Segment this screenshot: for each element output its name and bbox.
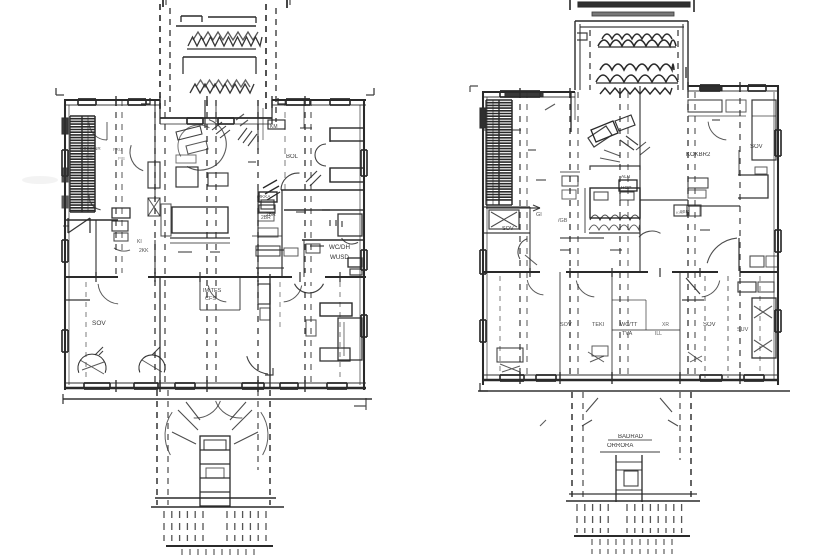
window top-right B	[330, 98, 350, 100]
r-kitchen wall	[639, 86, 641, 272]
window bottom D	[242, 382, 264, 384]
p1 scatter marks	[178, 114, 330, 252]
p1 wall stub x258 top	[257, 100, 259, 150]
r-outer wall left	[482, 92, 484, 385]
p1 door N mark bottom-left	[68, 218, 90, 233]
window bottom E	[280, 382, 298, 384]
outer wall top recessed (behind terrace)	[160, 117, 272, 119]
wall join right of terrace	[271, 100, 273, 124]
r-axis x578	[577, 92, 579, 380]
r-axis x527	[526, 92, 528, 380]
r-window bottom C	[700, 374, 722, 376]
sofa table big	[176, 167, 198, 187]
r-window bottom A	[500, 374, 524, 376]
window right wall C	[360, 315, 362, 337]
r-ground line	[478, 390, 790, 392]
bottom-right small table	[306, 320, 316, 336]
r-window bottom D	[744, 374, 764, 376]
window left wall C	[61, 330, 63, 352]
svg-text:KOKSINR: KOKSINR	[80, 146, 101, 151]
axis line x258	[257, 100, 259, 388]
top-right room sofa	[330, 128, 364, 141]
p2 wardrobe boxes	[750, 256, 764, 267]
r-left small tick	[540, 420, 546, 426]
r-toilet walls	[483, 206, 530, 208]
kitchen door arc	[89, 123, 107, 140]
lower stair dashed outline	[156, 390, 158, 505]
r-stair landing	[486, 204, 512, 206]
KM appliance box	[268, 120, 285, 129]
outer wall top-right segment	[272, 99, 366, 101]
window top-right A	[286, 98, 310, 100]
p2 appliance row	[674, 205, 687, 216]
bottom mid door arcs	[208, 286, 226, 302]
outer wall top-left segment	[64, 99, 160, 101]
r-bottom rooms wall 3	[679, 272, 681, 380]
p1 top-left corner bracket	[56, 88, 64, 95]
r-bottom rooms wall 4	[612, 329, 680, 331]
r-scallop row 3	[600, 88, 672, 94]
axis line x122	[121, 100, 123, 278]
r-window top-left	[500, 90, 540, 92]
window bottom A	[84, 382, 110, 384]
r-terrace window bracket	[577, 33, 587, 40]
kitchen counter	[112, 208, 130, 218]
wc fixtures	[306, 244, 320, 253]
top edge tick 1	[162, 0, 164, 7]
svg-text:2KK: 2KK	[139, 248, 149, 254]
r-axis x520	[519, 92, 521, 380]
r-axis x620	[619, 92, 621, 380]
svg-text:TVA: TVA	[622, 331, 633, 337]
fan arcs right	[230, 402, 258, 444]
armchair hatch right	[238, 128, 257, 146]
window recessed B	[218, 117, 234, 119]
p2 bottom band dashes extra	[499, 276, 501, 372]
mid-right room bed	[338, 214, 362, 236]
svg-text:HOP: HOP	[621, 185, 631, 191]
r-bottom-right bed	[752, 298, 776, 358]
round chair B	[139, 355, 165, 372]
r-bed pillows	[594, 192, 608, 200]
r-lower dashed outline	[571, 392, 573, 500]
window bottom B	[134, 382, 158, 384]
r-window bottom B	[536, 374, 556, 376]
r-lower landing lines	[600, 451, 660, 453]
r-window right A	[774, 130, 776, 156]
p2 top window dark	[700, 86, 722, 91]
svg-text:BADRAD: BADRAD	[618, 434, 644, 440]
axis line x216	[215, 100, 217, 388]
svg-text:TEKI: TEKI	[592, 322, 605, 328]
r-bottomright wall stub	[682, 299, 704, 301]
r-stair arrow	[486, 207, 540, 209]
r-door arc top right	[708, 122, 726, 140]
r-bottom-left chair2	[588, 352, 604, 362]
shrub row 1	[188, 37, 262, 46]
outer wall left	[64, 100, 66, 390]
r-fridge	[445, 119, 447, 121]
terrace corner bracket right	[278, 98, 287, 104]
dining hatch marks	[212, 122, 230, 138]
terrace rail lower line	[176, 25, 256, 27]
window right wall A	[360, 150, 362, 176]
deck edge line	[155, 497, 276, 499]
outer wall bottom	[64, 387, 366, 389]
svg-text:XR: XR	[662, 322, 669, 328]
svg-text:ILL: ILL	[655, 331, 662, 337]
staircase band	[70, 116, 95, 211]
svg-text:/GB: /GB	[558, 218, 568, 224]
r-wcsmall fixtures	[489, 210, 519, 229]
top-right door arc	[281, 173, 300, 190]
svg-text:PIB: PIB	[86, 154, 93, 159]
axis line x311	[310, 100, 312, 388]
r-bottom rooms wall 1	[559, 272, 561, 380]
r-corridor wall	[483, 271, 779, 273]
mid bottom fixtures	[258, 284, 270, 304]
wall right mid room	[302, 239, 364, 241]
svg-text:BOL: BOL	[286, 154, 299, 160]
p1 wall ticks top	[116, 96, 305, 108]
bottom-left door arc	[98, 284, 118, 304]
r-axis x688	[687, 92, 689, 380]
bottom right door arc	[295, 284, 324, 293]
r-terrace rail lines	[575, 20, 688, 22]
kitchen wall below stairs	[64, 219, 118, 221]
r-fan marks	[582, 398, 678, 426]
r-deck edge	[569, 493, 697, 495]
p1 corridor ticks	[96, 272, 340, 282]
kitchen island	[176, 155, 196, 163]
vert wall right rooms	[281, 190, 283, 277]
r-terrace gray band	[592, 12, 674, 16]
chair arrows	[95, 347, 103, 355]
svg-text:SOV: SOV	[560, 322, 572, 328]
living room left wall	[154, 100, 156, 200]
r-axis x628	[627, 92, 629, 380]
r-window right C	[774, 310, 776, 332]
deck plank rows	[164, 511, 203, 541]
r-wc cell walls	[612, 299, 646, 301]
r-kitchen counters mid	[688, 178, 708, 188]
r-right bed top	[752, 100, 776, 160]
lower stair ladder	[200, 436, 230, 506]
p1 top-right corner bracket	[366, 88, 374, 95]
svg-text:SOV: SOV	[92, 320, 106, 327]
p2 wall ticks top	[520, 82, 740, 98]
axis line x116	[115, 100, 117, 278]
stair bottom landing	[70, 211, 95, 213]
dining chairs group	[176, 126, 202, 140]
p1 bottom band dashes extra	[85, 282, 87, 380]
r-outer wall bottom	[482, 379, 779, 381]
r-entry partition wall	[570, 92, 572, 132]
r-bottomright wardrobes	[738, 282, 756, 292]
svg-text:WC/DH: WC/DH	[329, 244, 350, 251]
r-window top-right B	[748, 84, 766, 86]
r-window left A	[479, 250, 481, 274]
r-staircase band	[486, 100, 512, 200]
r-axis x570	[569, 92, 571, 380]
wall right of living	[257, 190, 259, 277]
window bottom C	[175, 382, 195, 384]
svg-text:KOKBR2: KOKBR2	[686, 152, 711, 158]
r-scallop row 2	[600, 64, 674, 70]
svg-text:ALU: ALU	[621, 174, 631, 180]
smudge left	[22, 176, 58, 184]
left wall window bars p1	[62, 118, 68, 134]
terrace top rail	[181, 15, 202, 17]
window left wall A	[61, 150, 63, 176]
axis line x155	[154, 100, 156, 388]
r-outer wall top-right	[688, 85, 779, 87]
corridor wall gaps whiteout	[118, 273, 148, 282]
r-terrace top ticks	[569, 0, 571, 10]
r-deck planks	[577, 504, 608, 533]
shrub row 2	[190, 84, 254, 93]
r-bottom rooms wall 2	[611, 272, 613, 380]
window right wall B	[360, 250, 362, 270]
svg-text:KYL: KYL	[676, 210, 684, 215]
p2 corridor ticks	[530, 268, 740, 277]
p2 wall ticks bottom	[520, 372, 740, 384]
svg-text:SUV: SUV	[737, 327, 749, 333]
r-outer wall right	[777, 86, 779, 385]
r-outer wall top-left	[482, 91, 575, 93]
r-bed canopy squiggle	[591, 121, 618, 142]
r-window right B	[774, 230, 776, 252]
p1 hall spine boxes	[259, 192, 277, 202]
shrub row base	[187, 48, 256, 50]
p2 top-left corner tick	[470, 86, 478, 92]
axis line x207	[206, 100, 208, 388]
svg-text:2BR: 2BR	[261, 215, 271, 221]
svg-text:ORRORA: ORRORA	[607, 443, 633, 449]
terrace corner bracket left	[141, 98, 150, 104]
r-terrace side right	[687, 21, 689, 90]
fan arcs left	[172, 402, 200, 444]
deck below ticks	[182, 549, 254, 555]
living sofa big	[172, 207, 228, 233]
svg-text:KM: KM	[270, 124, 278, 130]
outer wall right	[363, 100, 365, 390]
r-kitchen bottom wall	[640, 199, 688, 201]
window top-left A	[78, 98, 96, 100]
r-alkov hop box	[619, 180, 637, 191]
round chair A	[78, 354, 106, 373]
r-window left B	[479, 320, 481, 342]
deck bottom edge	[166, 545, 273, 547]
hall fixtures	[258, 212, 274, 221]
round dining circle	[187, 120, 226, 171]
r-deck bottom edge	[574, 535, 690, 537]
wall top-right room	[281, 189, 364, 191]
window top-left B	[128, 98, 146, 100]
fireplace hatch	[263, 180, 280, 200]
axis line x305	[304, 100, 306, 388]
corridor wall main	[64, 276, 366, 278]
terrace dashed side lines right	[265, 4, 267, 112]
staircase side rail	[69, 116, 71, 212]
planter box	[183, 56, 256, 58]
r-terrace side left	[574, 21, 576, 90]
ground line below plan	[63, 398, 372, 400]
r-bed	[590, 188, 640, 218]
r-door arc kok	[639, 231, 661, 237]
svg-text:GI: GI	[536, 212, 542, 218]
svg-text:IM:TES: IM:TES	[203, 288, 222, 294]
window recessed A	[187, 117, 203, 119]
axis line x165	[164, 100, 166, 388]
p1 wall stub x205 top	[204, 100, 206, 128]
r-chair marks bottom	[688, 352, 702, 362]
r-kitchen bottom wall ext	[688, 205, 740, 207]
r-lower stair ladder	[615, 455, 617, 502]
wall join left of terrace	[159, 100, 161, 124]
r-bottom-left table	[497, 348, 523, 362]
closet wall bottom mid	[199, 277, 201, 310]
wall x304 segment	[303, 240, 305, 277]
bottom-right sofa	[320, 303, 352, 316]
r-window top-right A	[700, 84, 720, 86]
bottom band room wall 3	[279, 282, 281, 330]
r-scallop row 1	[598, 40, 676, 46]
p1 wall ticks bottom	[116, 380, 305, 392]
bottom band room wall 2	[269, 274, 271, 388]
r-bottomright dash pair	[704, 276, 706, 378]
terrace dashed side lines left	[159, 4, 161, 112]
r-armchair marks	[636, 142, 650, 155]
p2 large door arc right	[707, 238, 737, 263]
r-corridor gaps	[540, 268, 566, 277]
svg-text:WUSD: WUSD	[330, 254, 349, 261]
r-deck below ticks	[592, 539, 672, 554]
svg-text:KI: KI	[137, 239, 142, 245]
svg-text:WC/TT: WC/TT	[620, 322, 638, 328]
window left wall B	[61, 240, 63, 262]
svg-text:PIB: PIB	[118, 156, 125, 161]
bottom band room wall 1	[159, 277, 161, 388]
hall wall vertical	[95, 220, 97, 277]
r-axis x740	[739, 86, 741, 380]
p2 desk right room	[738, 175, 768, 198]
p2 scatter marks	[528, 104, 720, 250]
svg-text:FRU: FRU	[113, 147, 122, 152]
r-axis x695	[694, 92, 696, 380]
bathroom fixtures mid	[256, 246, 280, 256]
door arcs into stair	[194, 401, 221, 418]
p2 wall x739 segments	[738, 238, 740, 271]
r-bottom mid door arcs	[576, 281, 594, 297]
top edge tick 2	[286, 0, 288, 8]
r-kitchen counters top	[688, 100, 722, 112]
window bottom F	[327, 382, 347, 384]
r-terrace top bar	[578, 2, 690, 7]
